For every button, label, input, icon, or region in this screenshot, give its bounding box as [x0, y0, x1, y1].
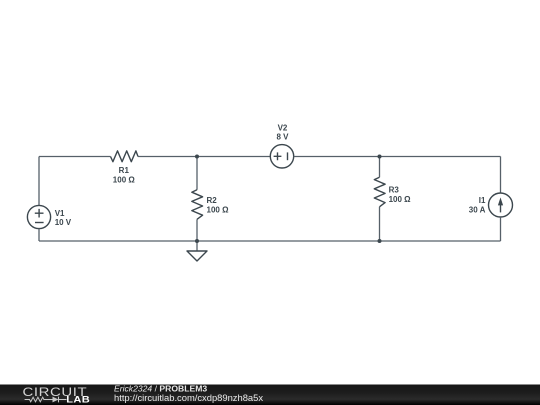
wire right vertical upper: [500, 157, 502, 194]
voltage source V1: [27, 205, 71, 228]
node junction bottom of R2 (ground node): [195, 239, 199, 243]
ground: [187, 251, 207, 261]
svg-text:100 Ω: 100 Ω: [389, 195, 412, 204]
svg-text:100 Ω: 100 Ω: [113, 176, 136, 185]
svg-text:10 V: 10 V: [55, 218, 72, 227]
wire ground stub: [196, 241, 198, 251]
svg-text:http://circuitlab.com/cxdp89nz: http://circuitlab.com/cxdp89nzh8a5x: [114, 392, 263, 403]
wire top-left vertical from V1 to top rail: [38, 157, 40, 206]
resistor R2: [192, 190, 229, 220]
svg-text:R1: R1: [119, 166, 130, 175]
wire bottom rail: [39, 240, 501, 242]
node junction top of R3: [378, 155, 382, 159]
wire R2 bottom stub: [196, 219, 198, 241]
svg-text:R3: R3: [389, 185, 400, 194]
wire right vertical lower: [500, 217, 502, 241]
current source I1: [469, 193, 513, 217]
svg-text:V1: V1: [55, 209, 65, 218]
svg-text:I1: I1: [479, 196, 486, 205]
footer bar: [0, 385, 540, 405]
node junction top of R2: [195, 155, 199, 159]
node junction bottom of R3: [378, 239, 382, 243]
wire top rail right segment: [294, 156, 501, 158]
svg-text:8 V: 8 V: [276, 133, 289, 142]
wire R3 bottom stub: [379, 207, 381, 241]
svg-text:LAB: LAB: [66, 395, 90, 405]
resistor R3: [374, 177, 411, 207]
resistor R1: [111, 151, 139, 185]
wire top rail left segment: [39, 156, 111, 158]
wire V1 bottom stub: [38, 229, 40, 241]
svg-text:100 Ω: 100 Ω: [207, 205, 230, 214]
wire R3 top stub: [379, 157, 381, 178]
wire R2 top stub: [196, 157, 198, 190]
voltage source V2: [270, 124, 293, 168]
svg-text:30 A: 30 A: [469, 206, 486, 215]
CircuitLab logo schematic glyph (resistor and diode): [25, 397, 67, 403]
svg-text:R2: R2: [207, 196, 218, 205]
wire top rail middle segment: [138, 156, 270, 158]
svg-text:V2: V2: [278, 124, 288, 133]
